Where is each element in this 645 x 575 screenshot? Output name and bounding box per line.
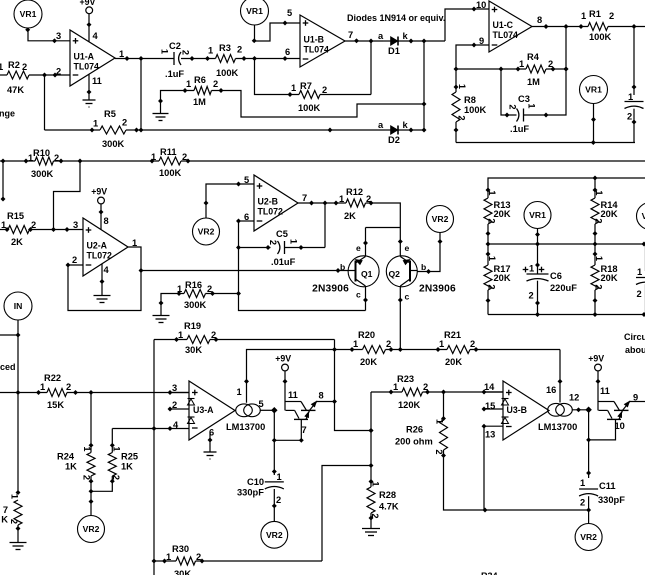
- svg-text:1K: 1K: [65, 462, 77, 472]
- wire U3-A pin2 stub: [170, 408, 189, 410]
- svg-text:e: e: [405, 243, 410, 253]
- resistor R19 30K: [154, 339, 187, 341]
- svg-text:R28: R28: [379, 490, 396, 500]
- wire U3-B pin10 loop: [589, 419, 616, 440]
- ground under U2-A: [94, 295, 111, 297]
- svg-text:C10: C10: [247, 477, 264, 487]
- svg-text:1: 1: [637, 267, 642, 277]
- VR2 pot terminal (C10): [261, 521, 288, 548]
- svg-text:1: 1: [487, 190, 497, 195]
- wire U1-C output: [532, 26, 588, 28]
- wire R7 feedback up to U1-B output: [370, 41, 372, 95]
- wire U3-A pin8 to R19/R20 node: [317, 401, 335, 403]
- wire Q2 emitter: [399, 228, 401, 257]
- svg-text:2: 2: [211, 330, 216, 340]
- svg-text:R34: R34: [481, 571, 498, 575]
- svg-text:VR1: VR1: [642, 211, 645, 221]
- OTA U3-B input diodes: [502, 398, 509, 400]
- svg-text:2: 2: [637, 289, 642, 299]
- svg-text:TL072: TL072: [258, 207, 284, 217]
- svg-text:2: 2: [609, 11, 614, 21]
- svg-text:nge: nge: [0, 109, 15, 119]
- resistor R12 2K: [346, 199, 366, 207]
- svg-text:6: 6: [285, 47, 290, 57]
- svg-text:R26: R26: [406, 425, 423, 435]
- svg-text:2: 2: [386, 339, 391, 349]
- svg-text:R5: R5: [104, 109, 116, 119]
- wire R19 down to buffer/R20 node: [335, 340, 372, 431]
- svg-text:b: b: [340, 262, 345, 272]
- wire U3-A pin6 to ground: [209, 433, 211, 452]
- svg-text:Circuit: Circuit: [624, 332, 645, 342]
- VR2 pot terminal (R24/R25): [78, 516, 105, 543]
- svg-text:2: 2: [237, 45, 242, 55]
- wire R25 top row to U3-A pin4: [112, 428, 189, 430]
- svg-text:2: 2: [276, 495, 281, 505]
- svg-text:8: 8: [537, 15, 542, 25]
- resistor R6 1M: [194, 87, 212, 95]
- op-amp U1-A: [70, 30, 115, 86]
- wire R6 to D1/D2 cathode node: [212, 91, 425, 118]
- svg-text:1: 1: [581, 11, 586, 21]
- diode D1: [391, 37, 399, 46]
- svg-text:1: 1: [178, 330, 183, 340]
- resistor R21 20K: [447, 346, 470, 354]
- svg-text:2: 2: [54, 153, 59, 163]
- resistor R17 20K (vertical): [487, 244, 489, 265]
- diode D2: [391, 126, 399, 135]
- wire VR1 stem to bottom rail: [593, 104, 595, 143]
- svg-text:R4: R4: [527, 52, 540, 62]
- wire R19 branch vertical: [153, 340, 155, 575]
- resistor R11 100K: [159, 157, 181, 165]
- svg-text:+9V: +9V: [79, 0, 95, 7]
- wire VR2 to Q2 base: [417, 233, 440, 272]
- svg-text:14: 14: [484, 382, 495, 392]
- svg-text:LM13700: LM13700: [538, 422, 577, 432]
- svg-text:c: c: [356, 290, 361, 300]
- svg-text:2: 2: [122, 118, 127, 128]
- wire VR1 to U1-B pin5: [255, 23, 301, 41]
- svg-text:TL074: TL074: [493, 30, 519, 40]
- svg-text:VR2: VR2: [580, 532, 597, 542]
- svg-text:100K: 100K: [159, 168, 182, 178]
- svg-text:1: 1: [370, 481, 380, 486]
- svg-text:VR2: VR2: [432, 214, 449, 224]
- svg-text:4: 4: [93, 31, 99, 41]
- wire U1-A pin11 to ground: [88, 74, 90, 100]
- svg-text:2: 2: [213, 79, 218, 89]
- svg-text:2: 2: [207, 284, 212, 294]
- svg-text:VR2: VR2: [266, 530, 283, 540]
- svg-text:VR1: VR1: [529, 210, 546, 220]
- svg-text:2: 2: [529, 291, 534, 301]
- svg-text:1: 1: [112, 446, 122, 451]
- svg-text:1: 1: [439, 339, 444, 349]
- svg-text:300K: 300K: [184, 300, 207, 310]
- svg-text:11: 11: [600, 386, 610, 396]
- svg-text:1M: 1M: [193, 97, 206, 107]
- svg-text:VR1: VR1: [246, 6, 263, 16]
- wire VR1 to middle rail: [537, 229, 539, 245]
- svg-text:about: about: [625, 345, 645, 355]
- resistor R2 47K: [0, 74, 7, 76]
- ground near R6: [153, 113, 169, 115]
- svg-text:3: 3: [172, 383, 177, 393]
- svg-text:R15: R15: [7, 211, 24, 221]
- svg-text:1: 1: [160, 49, 170, 54]
- svg-text:5: 5: [244, 175, 249, 185]
- svg-text:2: 2: [508, 104, 518, 109]
- wire R12 to emitters: [366, 203, 401, 228]
- resistor R13 20K (vertical): [484, 198, 492, 224]
- VR2 pot terminal (U2-B): [193, 218, 220, 245]
- svg-text:1: 1: [487, 256, 497, 261]
- svg-text:1: 1: [594, 190, 604, 195]
- svg-text:4.7K: 4.7K: [379, 502, 399, 512]
- op-amp U2-A: [83, 218, 128, 276]
- svg-text:U1-B: U1-B: [304, 35, 325, 45]
- svg-text:R21: R21: [444, 330, 461, 340]
- op-amp (OTA) U3-A: [189, 381, 235, 440]
- wire +9V to U1-A pin4: [88, 14, 90, 42]
- svg-text:5: 5: [259, 399, 264, 409]
- resistor R16 300K: [184, 290, 206, 298]
- wire R5 net to D2 anode: [141, 129, 385, 131]
- svg-text:1: 1: [166, 552, 171, 562]
- wire emitter tie row: [366, 227, 401, 229]
- svg-text:47K: 47K: [7, 85, 24, 95]
- svg-text:100K: 100K: [464, 105, 487, 115]
- wire R21 to U3-B pin16: [559, 350, 561, 403]
- svg-text:2: 2: [580, 498, 585, 508]
- svg-text:Q2: Q2: [389, 269, 401, 279]
- ground under R16: [153, 315, 170, 317]
- svg-text:R10: R10: [33, 148, 50, 158]
- wire output down to R5/D2 net: [140, 59, 142, 131]
- wire C2 to R3: [181, 58, 216, 60]
- wire R10 node down to R15 row: [54, 161, 81, 230]
- svg-text:2: 2: [423, 382, 428, 392]
- svg-text:e: e: [356, 243, 361, 253]
- svg-text:k: k: [403, 31, 409, 41]
- resistor R20 20K: [335, 349, 363, 351]
- svg-text:2: 2: [196, 552, 201, 562]
- VR2 pot terminal (Q2 base): [427, 206, 454, 233]
- transistor Q2 2N3906: [386, 256, 417, 287]
- svg-text:1: 1: [93, 119, 98, 129]
- svg-text:20K: 20K: [601, 273, 618, 283]
- svg-text:1: 1: [519, 59, 524, 69]
- svg-text:3: 3: [56, 31, 61, 41]
- svg-text:2K: 2K: [11, 237, 23, 247]
- svg-text:30K: 30K: [174, 569, 191, 575]
- svg-text:1: 1: [151, 152, 156, 162]
- wire U2-A pin4 to ground: [101, 264, 103, 296]
- svg-text:120K: 120K: [398, 400, 421, 410]
- svg-text:1: 1: [580, 478, 585, 488]
- wire R22 node down to R24: [90, 393, 92, 453]
- svg-text:11: 11: [288, 390, 298, 400]
- svg-text:+9V: +9V: [275, 354, 291, 364]
- svg-text:1: 1: [434, 419, 444, 424]
- wire R24/R25 bottom join to VR2: [91, 476, 112, 491]
- svg-text:.01uF: .01uF: [271, 257, 296, 267]
- svg-text:LM13700: LM13700: [226, 422, 265, 432]
- svg-text:TL074: TL074: [304, 45, 330, 55]
- svg-text:15K: 15K: [47, 400, 64, 410]
- svg-text:30K: 30K: [185, 345, 202, 355]
- svg-text:R16: R16: [185, 280, 202, 290]
- resistor R24 1K (vertical): [87, 453, 95, 477]
- wire U1-B output to D1: [345, 40, 383, 42]
- IN input terminal: [4, 292, 32, 320]
- resistor R10 300K: [35, 157, 54, 165]
- wire R2 node down to R5: [44, 75, 46, 130]
- resistor R15 2K: [0, 229, 8, 231]
- resistor R28 4.7K (vertical): [367, 487, 375, 513]
- VR1 pot terminal (ladder): [524, 202, 551, 229]
- svg-text:2N3906: 2N3906: [312, 284, 349, 295]
- svg-text:ced: ced: [0, 362, 16, 372]
- wire output down to C11: [588, 410, 590, 478]
- wire output row to Q1 base: [141, 270, 348, 272]
- svg-text:2: 2: [82, 475, 92, 480]
- svg-text:2: 2: [627, 112, 632, 122]
- svg-text:200 ohm: 200 ohm: [395, 437, 433, 447]
- wire R26 down to C11 row: [444, 450, 589, 510]
- resistor R4 1M: [526, 65, 546, 73]
- svg-text:3: 3: [73, 220, 78, 230]
- svg-text:a: a: [378, 120, 384, 130]
- svg-text:VR2: VR2: [198, 227, 215, 237]
- svg-text:20K: 20K: [494, 273, 511, 283]
- svg-text:K: K: [1, 515, 8, 525]
- svg-text:1: 1: [353, 339, 358, 349]
- resistor R1 100K: [588, 23, 608, 31]
- svg-text:11: 11: [92, 76, 102, 86]
- svg-text:R3: R3: [219, 43, 231, 53]
- VR1 pot terminal (right): [580, 76, 608, 104]
- svg-text:2: 2: [72, 255, 77, 265]
- wire U3-A pin7 loop: [274, 419, 301, 440]
- wire ladder bottom rail: [488, 314, 645, 316]
- wire U2-B pin6 stub: [239, 220, 255, 222]
- svg-text:R7: R7: [300, 81, 312, 91]
- svg-text:2: 2: [322, 85, 327, 95]
- svg-text:.1uF: .1uF: [165, 69, 184, 79]
- wire U1-C pin9 node: [456, 45, 489, 69]
- svg-text:U1-A: U1-A: [74, 52, 95, 62]
- wire IN net down to R27: [17, 335, 19, 493]
- svg-text:D2: D2: [388, 135, 400, 145]
- svg-text:VR1: VR1: [20, 9, 37, 19]
- wire C5 up to U2-B output: [324, 203, 326, 248]
- svg-text:R19: R19: [184, 321, 201, 331]
- resistor R8 100K (vertical): [455, 69, 457, 92]
- capacitor C11 330pF: [579, 488, 598, 490]
- svg-text:4: 4: [104, 265, 110, 275]
- svg-text:1: 1: [529, 264, 534, 274]
- ground under R28: [362, 528, 380, 530]
- stub wire with end dot: [2, 161, 4, 199]
- wire ladder top rail: [488, 178, 645, 198]
- resistor R18 20K (vertical): [594, 244, 596, 265]
- svg-text:12: 12: [569, 393, 579, 403]
- svg-text:R23: R23: [397, 374, 414, 384]
- svg-text:b: b: [421, 262, 426, 272]
- transistor Q1 2N3906: [348, 256, 379, 287]
- wire long rail R10/R11 row: [0, 160, 35, 162]
- svg-text:1: 1: [339, 194, 344, 204]
- svg-text:100K: 100K: [589, 32, 612, 42]
- svg-text:Diodes 1N914 or equiv.: Diodes 1N914 or equiv.: [347, 13, 445, 23]
- wire U3-A pin1 to R20 node: [247, 350, 335, 403]
- wire pin6 vertical to Q1 collector: [239, 221, 366, 311]
- svg-text:8: 8: [104, 216, 109, 226]
- wire U2-A output follower loop: [68, 247, 141, 311]
- capacitor C2 .1uF: [173, 52, 175, 65]
- svg-text:1K: 1K: [121, 462, 133, 472]
- svg-text:1: 1: [237, 387, 242, 397]
- svg-text:Q1: Q1: [361, 269, 373, 279]
- resistor R23 120K: [371, 391, 402, 393]
- wire IN down/left: [0, 320, 18, 335]
- svg-text:100K: 100K: [298, 103, 321, 113]
- svg-text:C5: C5: [276, 229, 288, 239]
- resistor R27 4.7K (vertical, clipped label): [14, 500, 22, 525]
- svg-text:U3-B: U3-B: [507, 405, 528, 415]
- wire Q2 collector down to R20/R21: [399, 286, 401, 350]
- svg-text:220uF: 220uF: [550, 283, 577, 293]
- wire Q1 collector: [365, 286, 367, 311]
- svg-text:1: 1: [177, 284, 182, 294]
- svg-text:300K: 300K: [31, 169, 54, 179]
- svg-text:R24: R24: [57, 452, 75, 462]
- capacitor C1 (right edge): [633, 27, 635, 96]
- svg-text:4: 4: [173, 420, 179, 430]
- svg-text:1M: 1M: [527, 77, 540, 87]
- svg-text:2K: 2K: [344, 211, 356, 221]
- svg-text:2: 2: [594, 218, 604, 223]
- svg-text:330pF: 330pF: [237, 488, 264, 498]
- svg-text:C11: C11: [599, 481, 616, 491]
- wire R23 node down thru R28: [370, 392, 372, 487]
- ground under R27: [10, 542, 27, 544]
- svg-text:.1uF: .1uF: [510, 124, 529, 134]
- svg-text:100K: 100K: [216, 68, 239, 78]
- svg-text:k: k: [403, 120, 409, 130]
- wire ladder middle rail: [488, 243, 645, 245]
- svg-text:1: 1: [119, 49, 124, 59]
- svg-text:2: 2: [31, 220, 36, 230]
- wire VR2 to U2-B pin5: [206, 184, 254, 218]
- svg-text:R20: R20: [358, 330, 375, 340]
- svg-text:1: 1: [527, 103, 537, 108]
- OTA U3-A output circles: [236, 404, 253, 417]
- svg-text:1: 1: [82, 446, 92, 451]
- svg-text:VR1: VR1: [585, 85, 602, 95]
- capacitor C6 220uF electrolytic: [537, 244, 539, 274]
- svg-text:7: 7: [302, 425, 307, 435]
- svg-text:300K: 300K: [102, 139, 125, 149]
- svg-text:VR2: VR2: [83, 524, 100, 534]
- svg-text:2: 2: [22, 62, 27, 72]
- svg-text:2: 2: [182, 152, 187, 162]
- VR pot terminal (right edge, clipped): [637, 203, 645, 230]
- wire U3-B output: [572, 409, 589, 411]
- wire U1-A output: [115, 58, 174, 60]
- U3-A buffer transistors (pins 11/8/7): [286, 399, 320, 420]
- svg-text:2: 2: [181, 50, 191, 55]
- svg-text:5: 5: [287, 8, 292, 18]
- op-amp U2-B: [254, 175, 298, 231]
- wire R16 to ground: [161, 294, 184, 316]
- svg-text:1: 1: [594, 256, 604, 261]
- VR1 pot terminal (top-left): [14, 0, 42, 28]
- resistor R26 200 ohm (vertical): [443, 392, 445, 420]
- svg-text:U3-A: U3-A: [193, 405, 214, 415]
- svg-text:1: 1: [1, 220, 6, 230]
- svg-text:2: 2: [487, 284, 497, 289]
- svg-text:1: 1: [457, 84, 467, 89]
- svg-text:R12: R12: [346, 187, 363, 197]
- wire U3-B pin13 down: [484, 426, 503, 510]
- op-amp (OTA) U3-B: [503, 381, 549, 440]
- svg-text:1: 1: [0, 62, 3, 72]
- wire VR1 to U1-A pin3: [28, 28, 70, 41]
- svg-text:20K: 20K: [445, 357, 462, 367]
- svg-text:1: 1: [277, 472, 282, 482]
- ground under U1-A: [83, 99, 96, 101]
- wire pin6 node down to R7: [255, 59, 300, 95]
- wire U3-B pin15 stub: [484, 408, 503, 410]
- wire R30 right up to R28 node: [322, 466, 371, 562]
- svg-text:1: 1: [208, 46, 213, 56]
- svg-text:2: 2: [9, 519, 19, 524]
- svg-text:TL074: TL074: [74, 62, 100, 72]
- svg-text:c: c: [405, 292, 410, 302]
- resistor R22 15K: [0, 392, 47, 394]
- VR1 pot terminal (above U1-B): [241, 0, 269, 25]
- svg-text:U1-C: U1-C: [493, 20, 514, 30]
- U3-B buffer transistors (pins 11/9/10): [599, 399, 633, 420]
- OTA U3-A input diodes: [188, 398, 195, 400]
- svg-text:2: 2: [594, 284, 604, 289]
- op-amp U1-B: [300, 15, 345, 67]
- wire U3-B pin9 out to edge: [630, 401, 645, 403]
- svg-text:2: 2: [548, 59, 553, 69]
- capacitor C3 .1uF: [524, 27, 567, 116]
- resistor R7 100K: [299, 91, 320, 99]
- svg-text:13: 13: [485, 430, 495, 440]
- wire D1 cathode down to D2: [423, 41, 425, 130]
- VR2 pot terminal (C11): [575, 524, 602, 551]
- svg-text:IN: IN: [14, 301, 23, 311]
- wire U3-B pin14: [484, 391, 503, 393]
- svg-text:C6: C6: [550, 271, 562, 281]
- svg-text:20K: 20K: [494, 209, 511, 219]
- svg-text:a: a: [378, 31, 384, 41]
- svg-text:8: 8: [319, 391, 324, 401]
- svg-text:7: 7: [3, 505, 8, 515]
- svg-text:1: 1: [291, 83, 296, 93]
- svg-text:R25: R25: [121, 452, 138, 462]
- wire Q1 emitter: [365, 228, 367, 257]
- wire D1 output up to U1-C pin10: [445, 9, 489, 41]
- svg-text:2: 2: [66, 382, 71, 392]
- svg-text:R11: R11: [160, 147, 177, 157]
